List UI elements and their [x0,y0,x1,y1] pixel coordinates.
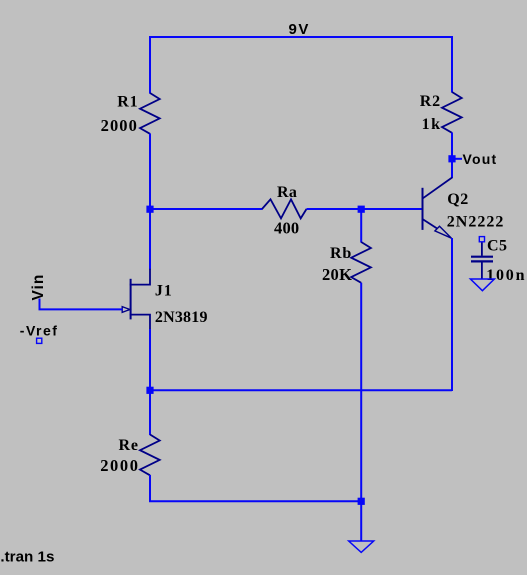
wire Vin to gate [40,299,123,310]
wire emitter return horizontal [149,389,452,391]
wire R2 top lead [451,36,453,93]
resistor Re [140,435,160,476]
wire Ra left segment [149,208,263,210]
node junction Vout [448,155,455,162]
svg-text:-Vref: -Vref [20,323,59,339]
svg-text:.tran 1s: .tran 1s [0,549,54,566]
svg-text:9V: 9V [289,21,310,38]
svg-text:J1: J1 [155,283,173,300]
wire Ra right to Q2 base [307,208,423,210]
svg-text:R2: R2 [420,93,441,110]
svg-text:2000: 2000 [100,456,139,475]
resistor Rb [351,242,371,283]
svg-text:Q2: Q2 [447,191,468,208]
svg-text:C5: C5 [487,238,508,255]
svg-text:R1: R1 [117,93,138,110]
wire J1 source to Re top [149,329,151,435]
jfet J1 [122,269,150,330]
wire Rb bottom to ground junction [360,283,362,502]
svg-text:Rb: Rb [330,245,352,262]
wire R2 bottom to collector [451,133,453,179]
port marker open square (-Vref) [37,338,42,343]
resistor R2 [442,92,462,133]
resistor Ra [262,199,307,218]
svg-text:20K: 20K [322,265,352,284]
node junction left-Ra (drain node) [146,206,153,213]
transistor Q2 [423,177,453,238]
svg-text:400: 400 [274,218,299,237]
ground symbol C5 [470,279,494,291]
node junction source-emitter return [146,387,153,394]
wire Rb top lead [360,209,362,243]
node junction Ra-Rb-base [358,206,365,213]
svg-text:1k: 1k [422,116,442,133]
wire ground stem [360,501,362,541]
capacitor C5 [471,242,493,279]
svg-text:2N2222: 2N2222 [447,214,505,231]
wire Vout label stub [454,158,462,160]
svg-text:Ra: Ra [277,184,297,201]
ground symbol main [349,541,374,552]
wire left rail top [149,36,151,94]
svg-text:Vout: Vout [463,151,498,167]
resistor R1 [140,93,160,134]
wire Re bottom L to ground junction [150,475,362,501]
wire top 9V rail [149,36,453,38]
svg-text:2N3819: 2N3819 [155,309,208,326]
svg-text:Re: Re [119,437,139,454]
wire R1 bottom to J1 drain [149,134,151,270]
svg-text:Vin: Vin [30,274,47,301]
node junction ground [358,498,365,505]
wire emitter down [451,238,453,391]
svg-text:2000: 2000 [101,116,138,135]
port marker open square (C5 top) [479,237,484,242]
